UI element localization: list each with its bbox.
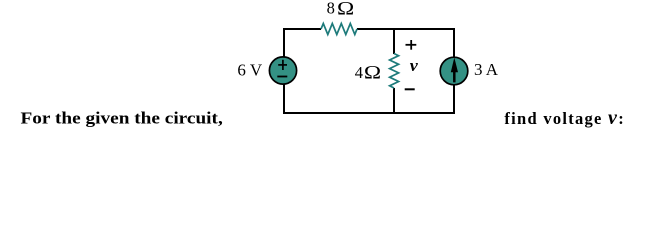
wire middle branch upper (393, 29, 395, 54)
svg-text:For the given the circuit,: For the given the circuit, (21, 108, 223, 127)
node v plus sign (406, 44, 417, 46)
svg-text:4: 4 (355, 63, 363, 82)
current source arrow shaft (453, 70, 456, 82)
svg-text:find voltage v:: find voltage v: (504, 107, 623, 129)
wire middle branch lower (393, 88, 395, 113)
node v minus sign (405, 88, 415, 90)
resistor R 4ohm zigzag (390, 54, 399, 89)
wire top-right segment (357, 28, 455, 30)
svg-text:6 V: 6 V (237, 61, 262, 80)
svg-text:3 A: 3 A (474, 60, 499, 79)
wire top-left segment (284, 28, 321, 30)
current source I1 3A circle (440, 57, 468, 85)
wire bottom (283, 112, 455, 114)
wire right branch (453, 28, 455, 113)
resistor R 8ohm zigzag (321, 24, 357, 35)
svg-text:v: v (410, 56, 418, 75)
voltage source minus sign (277, 76, 287, 78)
current source arrow head (451, 58, 458, 73)
svg-text:8: 8 (327, 0, 335, 18)
voltage source V1 6V circle (269, 57, 296, 84)
wire left branch (283, 28, 285, 113)
voltage source plus sign (278, 64, 287, 66)
svg-text:Ω: Ω (337, 0, 354, 19)
svg-text:Ω: Ω (364, 62, 381, 84)
